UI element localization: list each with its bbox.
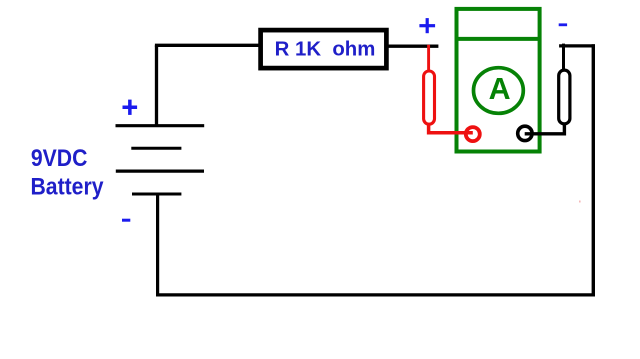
plus sign at battery + terminal bbox=[123, 100, 138, 115]
svg-text:9VDC: 9VDC bbox=[31, 145, 88, 172]
wire bottom rail bbox=[156, 293, 595, 296]
red probe lead from + node bbox=[427, 45, 430, 71]
battery B1 plate 2 (short) bbox=[131, 147, 181, 150]
wire right rail up to meter - node bbox=[592, 44, 595, 296]
battery B1 plate 3 (long) bbox=[116, 170, 204, 173]
black terminal jack of ammeter bbox=[518, 126, 532, 140]
svg-text:R 1K ohm: R 1K ohm bbox=[275, 37, 376, 60]
wire from battery + terminal up to top rail bbox=[155, 45, 158, 125]
black probe lead up to - node bbox=[562, 44, 565, 71]
stray red speck artifact bbox=[579, 201, 581, 203]
red terminal jack of ammeter bbox=[466, 127, 480, 141]
wire top rail to resistor R1 bbox=[155, 44, 260, 47]
ammeter M1 dial circle bbox=[474, 68, 524, 114]
plus sign at meter + input bbox=[419, 18, 435, 33]
black probe body capsule bbox=[559, 70, 570, 124]
battery B1 plate 4 (short, -) bbox=[132, 193, 181, 196]
battery B1 plate 1 (long, +) bbox=[116, 124, 205, 127]
minus sign at battery - terminal bbox=[122, 219, 130, 222]
ammeter M1 display divider bbox=[457, 37, 540, 41]
red probe lead below capsule bbox=[429, 124, 473, 133]
svg-text:A: A bbox=[489, 72, 511, 106]
black probe lead from jack bbox=[525, 125, 565, 134]
wire from battery - terminal down bbox=[156, 194, 159, 296]
svg-text:Battery: Battery bbox=[31, 174, 104, 201]
wire resistor R1 to meter + node bbox=[388, 45, 438, 48]
minus sign at meter - input bbox=[559, 23, 567, 26]
red probe body capsule bbox=[424, 71, 435, 124]
wire meter - node horizontal bbox=[559, 44, 595, 47]
resistor R1 box bbox=[261, 30, 387, 68]
ammeter M1 body bbox=[457, 9, 540, 152]
